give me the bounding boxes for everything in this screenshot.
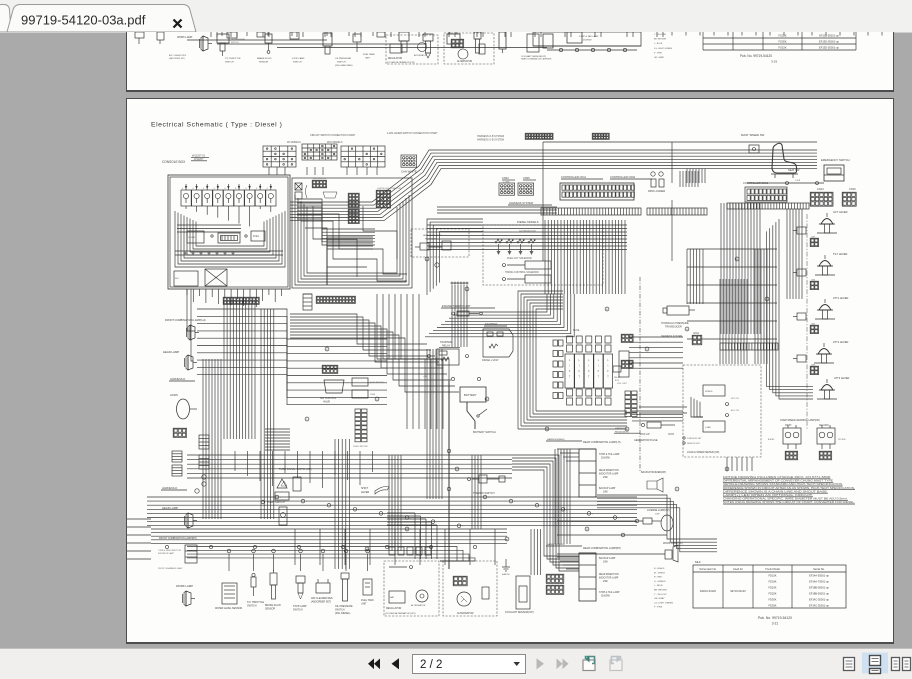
svg-text:Truck Model: Truck Model	[765, 567, 780, 571]
svg-text:Y : YELLOW: Y : YELLOW	[654, 594, 667, 596]
svg-text:Pub. No. 99719-54120: Pub. No. 99719-54120	[758, 616, 792, 620]
svg-text:FD30K: FD30K	[768, 597, 776, 601]
svg-text:L: L	[592, 513, 593, 515]
svg-text:WATER LEVEL SENSOR: WATER LEVEL SENSOR	[215, 607, 242, 610]
svg-text:(ABSORBER SET): (ABSORBER SET)	[169, 57, 185, 60]
svg-text:EARTH: EARTH	[502, 573, 510, 576]
svg-text:Schematic No.: Schematic No.	[699, 567, 717, 571]
svg-text:FG25K: FG25K	[778, 34, 786, 38]
svg-text:PICK UP: PICK UP	[640, 433, 650, 436]
svg-text:INDICATOR LAMP: INDICATOR LAMP	[599, 473, 619, 476]
svg-text:GR: GRAY: GR: GRAY	[654, 597, 665, 600]
svg-text:STOP & TAIL LAMP: STOP & TAIL LAMP	[579, 35, 599, 38]
svg-text:MAST SPEED SW: MAST SPEED SW	[741, 133, 765, 137]
svg-text:THERMO SWITCH: THERMO SWITCH	[473, 492, 495, 495]
svg-text:CN03: CN03	[502, 176, 509, 180]
svg-text:CN05: CN05	[523, 176, 530, 180]
svg-text:BAT: BAT	[390, 596, 395, 599]
svg-text:INDICATOR LAMP: INDICATOR LAMP	[599, 577, 619, 580]
svg-text:ADS LIMIT SW: ADS LIMIT SW	[370, 381, 384, 384]
svg-text:LOAD: LOAD	[705, 426, 711, 429]
svg-text:TURN SIGNAL SWITCH(OP): TURN SIGNAL SWITCH(OP)	[279, 468, 312, 471]
svg-text:REAR COMBINATION LAMP(RH): REAR COMBINATION LAMP(RH)	[521, 58, 552, 61]
svg-text:R : RED: R : RED	[654, 577, 662, 579]
svg-text:SWITCH: SWITCH	[293, 62, 302, 64]
svg-text:CONTROLLER CN02: CONTROLLER CN02	[610, 175, 636, 179]
svg-text:L: L	[306, 501, 307, 503]
svg-text:3-21: 3-21	[772, 622, 779, 626]
svg-text:L: L	[488, 497, 489, 499]
svg-text:CN09 LIMIT SW: CN09 LIMIT SW	[353, 446, 368, 448]
svg-text:LICENSE LAMP(OP): LICENSE LAMP(OP)	[647, 509, 670, 512]
svg-text:L: L	[618, 518, 619, 520]
svg-text:VALVE: VALVE	[323, 400, 331, 403]
svg-text:BACKUP LAMP: BACKUP LAMP	[599, 487, 616, 490]
svg-text:I: I	[598, 365, 599, 368]
svg-text:W11207: W11207	[194, 157, 204, 161]
svg-text:TIMING CONTROL SOLENOID: TIMING CONTROL SOLENOID	[505, 271, 539, 274]
svg-text:RPM LOADER: RPM LOADER	[648, 189, 665, 193]
svg-text:L: L	[384, 513, 385, 515]
svg-text:REAR COMBINATION LAMP(LH): REAR COMBINATION LAMP(LH)	[583, 441, 621, 444]
svg-text:DIESEL MODELS: DIESEL MODELS	[517, 220, 539, 224]
svg-text:EMERGENCY SWITCH: EMERGENCY SWITCH	[821, 158, 850, 162]
svg-text:BACKUP LAMP: BACKUP LAMP	[599, 557, 616, 560]
svg-text:WORK LAMP: WORK LAMP	[177, 36, 193, 39]
svg-text:LEVER: LEVER	[361, 491, 369, 494]
svg-text:SWITCH: SWITCH	[293, 608, 303, 611]
svg-text:LG: LIGHT GREEN: LG: LIGHT GREEN	[654, 48, 672, 50]
svg-text:L: L	[358, 509, 359, 511]
svg-text:FUEL CUT SOLENOID: FUEL CUT SOLENOID	[507, 257, 532, 260]
svg-text:L: L	[332, 505, 333, 507]
svg-text:BR: BROWN: BR: BROWN	[654, 39, 667, 41]
svg-text:CN03: CN03	[668, 434, 675, 436]
svg-text:TRANSDUCER: TRANSDUCER	[665, 326, 682, 329]
svg-text:I: I	[588, 365, 589, 368]
svg-text:(ABSORBER SET): (ABSORBER SET)	[311, 600, 331, 603]
svg-text:99719-54120: 99719-54120	[730, 589, 746, 593]
svg-text:Pub. No. 99719-54120: Pub. No. 99719-54120	[740, 54, 772, 58]
svg-text:HARNESS SYSTEM: HARNESS SYSTEM	[661, 335, 682, 338]
svg-text:SECOND: SECOND	[819, 425, 829, 427]
svg-text:L: L	[514, 501, 515, 503]
svg-text:W/O MODELS: W/O MODELS	[327, 141, 343, 144]
svg-text:(DSL GASOLINE): (DSL GASOLINE)	[335, 64, 353, 67]
svg-text:E1032: E1032	[768, 439, 775, 441]
svg-text:L : BLUE: L : BLUE	[654, 43, 663, 45]
svg-text:21W/5W: 21W/5W	[601, 458, 611, 460]
svg-text:P.SENSOR SET: P.SENSOR SET	[687, 438, 702, 440]
svg-text:Used for: Used for	[733, 567, 743, 571]
svg-text:HARNESS-D: HARNESS-D	[170, 377, 185, 381]
svg-text:FD18K: FD18K	[768, 579, 776, 583]
svg-text:L: L	[540, 505, 541, 507]
svg-text:ATT3 LEVER: ATT3 LEVER	[834, 376, 850, 380]
svg-text:(CLOSED ALTERNATOR (OP)): (CLOSED ALTERNATOR (OP))	[387, 61, 415, 64]
svg-text:21W/5W: 21W/5W	[583, 40, 592, 42]
svg-text:T: T	[588, 376, 590, 379]
svg-text:P : PINK: P : PINK	[654, 52, 663, 54]
svg-text:EF13D-55001-up: EF13D-55001-up	[819, 46, 839, 50]
svg-text:EF13D-55001-up: EF13D-55001-up	[819, 40, 839, 44]
svg-text:GR: GRAY: GR: GRAY	[654, 56, 665, 59]
svg-text:F: F	[598, 370, 600, 373]
svg-text:I: I	[569, 365, 570, 368]
svg-text:BLK: BLK	[175, 278, 180, 280]
svg-text:T: T	[578, 376, 580, 379]
svg-text:HYD. UNIT: HYD. UNIT	[617, 383, 628, 385]
svg-text:EF18B-55001-up: EF18B-55001-up	[809, 591, 829, 595]
svg-text:BACKUP BUZZER(OP): BACKUP BUZZER(OP)	[641, 471, 666, 474]
svg-text:GENERATOR PULSE: GENERATOR PULSE	[634, 439, 658, 442]
svg-text:ALTERNATOR: ALTERNATOR	[414, 54, 428, 57]
svg-text:AIR CLEANER RES: AIR CLEANER RES	[169, 54, 187, 57]
svg-text:L: L	[569, 359, 571, 362]
svg-text:W : WHITE: W : WHITE	[654, 572, 665, 574]
svg-text:4-W/4 LEVER SWITCH CONNECTION: 4-W/4 LEVER SWITCH CONNECTION CHART	[387, 132, 438, 135]
svg-text:BRAKE FLUID: BRAKE FLUID	[257, 57, 272, 60]
svg-text:FG15K: FG15K	[778, 46, 786, 50]
svg-text:99719-54120-03a.pdf: 99719-54120-03a.pdf	[21, 13, 146, 28]
svg-text:REAR DIRECTION: REAR DIRECTION	[599, 573, 619, 576]
svg-text:CIRCUIT SWITCH CONNECTION CHAR: CIRCUIT SWITCH CONNECTION CHART	[310, 134, 356, 137]
svg-text:21W/5W: 21W/5W	[601, 596, 611, 598]
svg-text:FD20K: FD20K	[768, 585, 776, 589]
svg-text:REAR DIRECTION: REAR DIRECTION	[599, 469, 619, 472]
svg-text:WORK LAMP: WORK LAMP	[176, 584, 193, 588]
svg-text:RELAY: RELAY	[442, 344, 451, 348]
svg-text:L-R/B: L-R/B	[795, 180, 801, 182]
svg-text:UNIT: UNIT	[361, 602, 367, 605]
svg-text:SEAT SW: SEAT SW	[788, 168, 800, 172]
svg-text:STOP & TAIL LAMP: STOP & TAIL LAMP	[599, 453, 620, 456]
svg-text:REMOTE SET: REMOTE SET	[687, 443, 701, 445]
svg-text:CN1: CN1	[811, 365, 816, 367]
svg-text:UNIT: UNIT	[365, 58, 371, 60]
svg-text:W/ MODELS: W/ MODELS	[287, 141, 301, 144]
svg-text:SPEED: SPEED	[705, 391, 713, 393]
svg-text:CN1: CN1	[811, 280, 816, 282]
svg-text:REGULATOR: REGULATOR	[388, 57, 402, 60]
svg-text:REGULATOR: REGULATOR	[386, 607, 402, 610]
svg-text:KEY ON: KEY ON	[731, 398, 739, 400]
svg-text:L-TR/B: L-TR/B	[503, 182, 510, 184]
svg-text:HARNESS-D: HARNESS-D	[162, 486, 177, 490]
svg-text:CN16: CN16	[849, 187, 856, 191]
svg-text:FD35K: FD35K	[768, 603, 776, 607]
svg-text:BATTERY: BATTERY	[464, 393, 477, 397]
svg-text:STOP & TAIL LAMP: STOP & TAIL LAMP	[599, 591, 620, 594]
svg-text:SWITCH: SWITCH	[225, 62, 234, 64]
svg-text:T: T	[598, 376, 600, 379]
svg-text:FD15K: FD15K	[768, 573, 776, 577]
svg-text:23W: 23W	[603, 581, 609, 583]
svg-text:L: L	[280, 497, 281, 499]
svg-text:CAN WHITE: CAN WHITE	[401, 170, 417, 174]
svg-text:DIESEL 2.2KW: DIESEL 2.2KW	[482, 359, 499, 362]
svg-text:10W: 10W	[655, 514, 660, 516]
svg-text:GLOW PLUGS: GLOW PLUGS	[519, 230, 536, 233]
svg-text:P : PINK: P : PINK	[654, 607, 663, 609]
svg-text:FIRST: FIRST	[785, 425, 792, 427]
svg-text:LIGHTING SW: LIGHTING SW	[313, 178, 326, 180]
svg-text:CN1: CN1	[811, 324, 816, 326]
svg-text:23W: 23W	[603, 477, 609, 479]
svg-text:3-19: 3-19	[771, 60, 777, 64]
svg-text:L: L	[598, 359, 600, 362]
svg-text:MHI: MHI	[695, 560, 701, 564]
svg-text:ES019-54120: ES019-54120	[700, 589, 716, 593]
svg-text:W11207-01: W11207-01	[192, 154, 206, 158]
svg-text:HARNESS SYSTEM: HARNESS SYSTEM	[509, 201, 533, 205]
svg-text:FD25K: FD25K	[768, 591, 776, 595]
svg-text:REAR COMBINATION LAMP(RH): REAR COMBINATION LAMP(RH)	[583, 547, 621, 550]
svg-text:FUEL TANK: FUEL TANK	[363, 53, 375, 56]
svg-text:SENSOR: SENSOR	[265, 607, 275, 610]
svg-text:HARNESS: HARNESS	[615, 427, 626, 430]
svg-text:ATT2 LEVER: ATT2 LEVER	[833, 340, 849, 344]
svg-text:SWITCH: SWITCH	[247, 604, 257, 607]
svg-text:L: L	[436, 522, 437, 524]
svg-text:L: L	[462, 526, 463, 528]
svg-text:10W: 10W	[603, 562, 609, 564]
svg-text:ACC ON: ACC ON	[731, 409, 739, 412]
svg-text:EF14C-55001-up: EF14C-55001-up	[809, 597, 829, 601]
svg-text:CN04: CN04	[693, 333, 700, 335]
svg-text:TURN & SIDE DIRECTION: TURN & SIDE DIRECTION	[158, 550, 182, 552]
svg-text:I: I	[579, 365, 580, 368]
svg-text:EF14A-75001-up: EF14A-75001-up	[809, 579, 829, 583]
svg-text:FG30K: FG30K	[778, 40, 786, 44]
svg-text:TILT LEVER: TILT LEVER	[833, 252, 847, 256]
svg-text:CN08: CN08	[370, 394, 376, 396]
svg-text:SWITCH: SWITCH	[337, 62, 346, 64]
svg-text:SHIFT: SHIFT	[361, 487, 369, 490]
svg-text:SENSOR: SENSOR	[259, 62, 269, 64]
svg-text:EF18B-05001-up: EF18B-05001-up	[809, 585, 829, 589]
svg-text:HARNESS(MAIN): HARNESS(MAIN)	[547, 438, 565, 441]
svg-text:CONTROLLER CN11: CONTROLLER CN11	[561, 175, 586, 179]
svg-text:FRONT CLEARANCE LAMP: FRONT CLEARANCE LAMP	[158, 567, 183, 570]
svg-text:Y : YELLOW: Y : YELLOW	[654, 34, 666, 36]
svg-text:T: T	[607, 376, 609, 379]
svg-text:L: L	[588, 359, 590, 362]
svg-text:COOLANT SENSOR(OP): COOLANT SENSOR(OP)	[505, 611, 534, 614]
svg-text:T: T	[569, 376, 571, 379]
svg-text:LG: LIGHT GREEN: LG: LIGHT GREEN	[654, 602, 673, 604]
svg-text:CN1: CN1	[811, 237, 816, 239]
svg-text:EF11B-55001-up: EF11B-55001-up	[819, 34, 839, 38]
svg-text:(DSL DIESEL): (DSL DIESEL)	[335, 612, 351, 615]
svg-text:STARTER: STARTER	[440, 340, 452, 344]
svg-text:B : BLACK: B : BLACK	[654, 567, 665, 570]
svg-text:LOAD & SPEED METER (OP): LOAD & SPEED METER (OP)	[687, 451, 719, 454]
svg-text:I: I	[608, 365, 609, 368]
svg-text:STOP LAMP: STOP LAMP	[292, 57, 305, 60]
svg-text:F: F	[578, 370, 580, 373]
svg-text:BR: BROWN: BR: BROWN	[654, 590, 667, 592]
svg-text:ALTERNATOR: ALTERNATOR	[411, 604, 426, 607]
svg-text:11C302: 11C302	[838, 439, 846, 441]
svg-text:HORN SWITCH: HORN SWITCH	[267, 501, 285, 504]
svg-text:F: F	[588, 370, 590, 373]
svg-text:BOX: BOX	[615, 380, 620, 382]
svg-text:BATTERY SWITCH: BATTERY SWITCH	[473, 430, 496, 434]
svg-text:ALTERNATOR: ALTERNATOR	[457, 60, 472, 63]
svg-text:EF14C-55001-up: EF14C-55001-up	[809, 603, 829, 607]
svg-text:OIL PRESSURE: OIL PRESSURE	[335, 58, 352, 60]
svg-text:2 / 2: 2 / 2	[420, 659, 442, 671]
svg-text:CONSOLE BOX: CONSOLE BOX	[162, 160, 186, 164]
svg-text:HARNESS O-B SYSTEM: HARNESS O-B SYSTEM	[477, 139, 504, 142]
svg-text:Serial No.: Serial No.	[813, 567, 825, 571]
svg-text:HORN: HORN	[170, 393, 178, 397]
svg-text:HOUR: HOUR	[189, 237, 196, 239]
svg-text:G : GREEN: G : GREEN	[654, 581, 666, 583]
svg-text:ATT1 LEVER: ATT1 LEVER	[833, 296, 849, 300]
svg-text:ALTERNATOR: ALTERNATOR	[457, 612, 474, 615]
svg-text:EF14A-55001-up: EF14A-55001-up	[809, 573, 829, 577]
svg-text:G: G	[686, 329, 688, 331]
svg-text:RELAY: RELAY	[614, 376, 621, 379]
svg-text:FUEL: FUEL	[253, 235, 260, 238]
svg-text:CN13: CN13	[817, 187, 824, 191]
svg-text:F: F	[607, 370, 609, 373]
svg-text:F: F	[569, 370, 571, 373]
svg-text:FRONT COMBINATION LAMP(LH): FRONT COMBINATION LAMP(LH)	[165, 318, 206, 322]
svg-text:M: M	[546, 429, 548, 431]
svg-text:INDICATOR LAMP: INDICATOR LAMP	[158, 552, 175, 555]
svg-text:OVER SPEED WARNING LAMP(OP): OVER SPEED WARNING LAMP(OP)	[780, 419, 820, 422]
svg-text:LIFT LEVER: LIFT LEVER	[833, 210, 848, 214]
svg-text:(CLOSED ALTERNATOR (OP)): (CLOSED ALTERNATOR (OP))	[385, 612, 416, 615]
svg-text:L: L	[607, 359, 609, 362]
svg-text:L: L	[579, 359, 581, 362]
svg-text:STARTER: STARTER	[485, 322, 497, 326]
svg-text:HEAD LAMP: HEAD LAMP	[163, 350, 179, 354]
svg-text:L : BLUE: L : BLUE	[654, 585, 663, 587]
svg-text:S/W CONTROL: S/W CONTROL	[320, 398, 337, 400]
svg-text:T/C THROTTLE: T/C THROTTLE	[225, 58, 241, 60]
svg-text:Electrical Schematic ( Type :: Electrical Schematic ( Type : Diesel )	[151, 122, 282, 129]
svg-text:LIGHTING SW CONNECTOR: LIGHTING SW CONNECTOR	[377, 188, 402, 190]
svg-text:10W: 10W	[603, 492, 609, 494]
